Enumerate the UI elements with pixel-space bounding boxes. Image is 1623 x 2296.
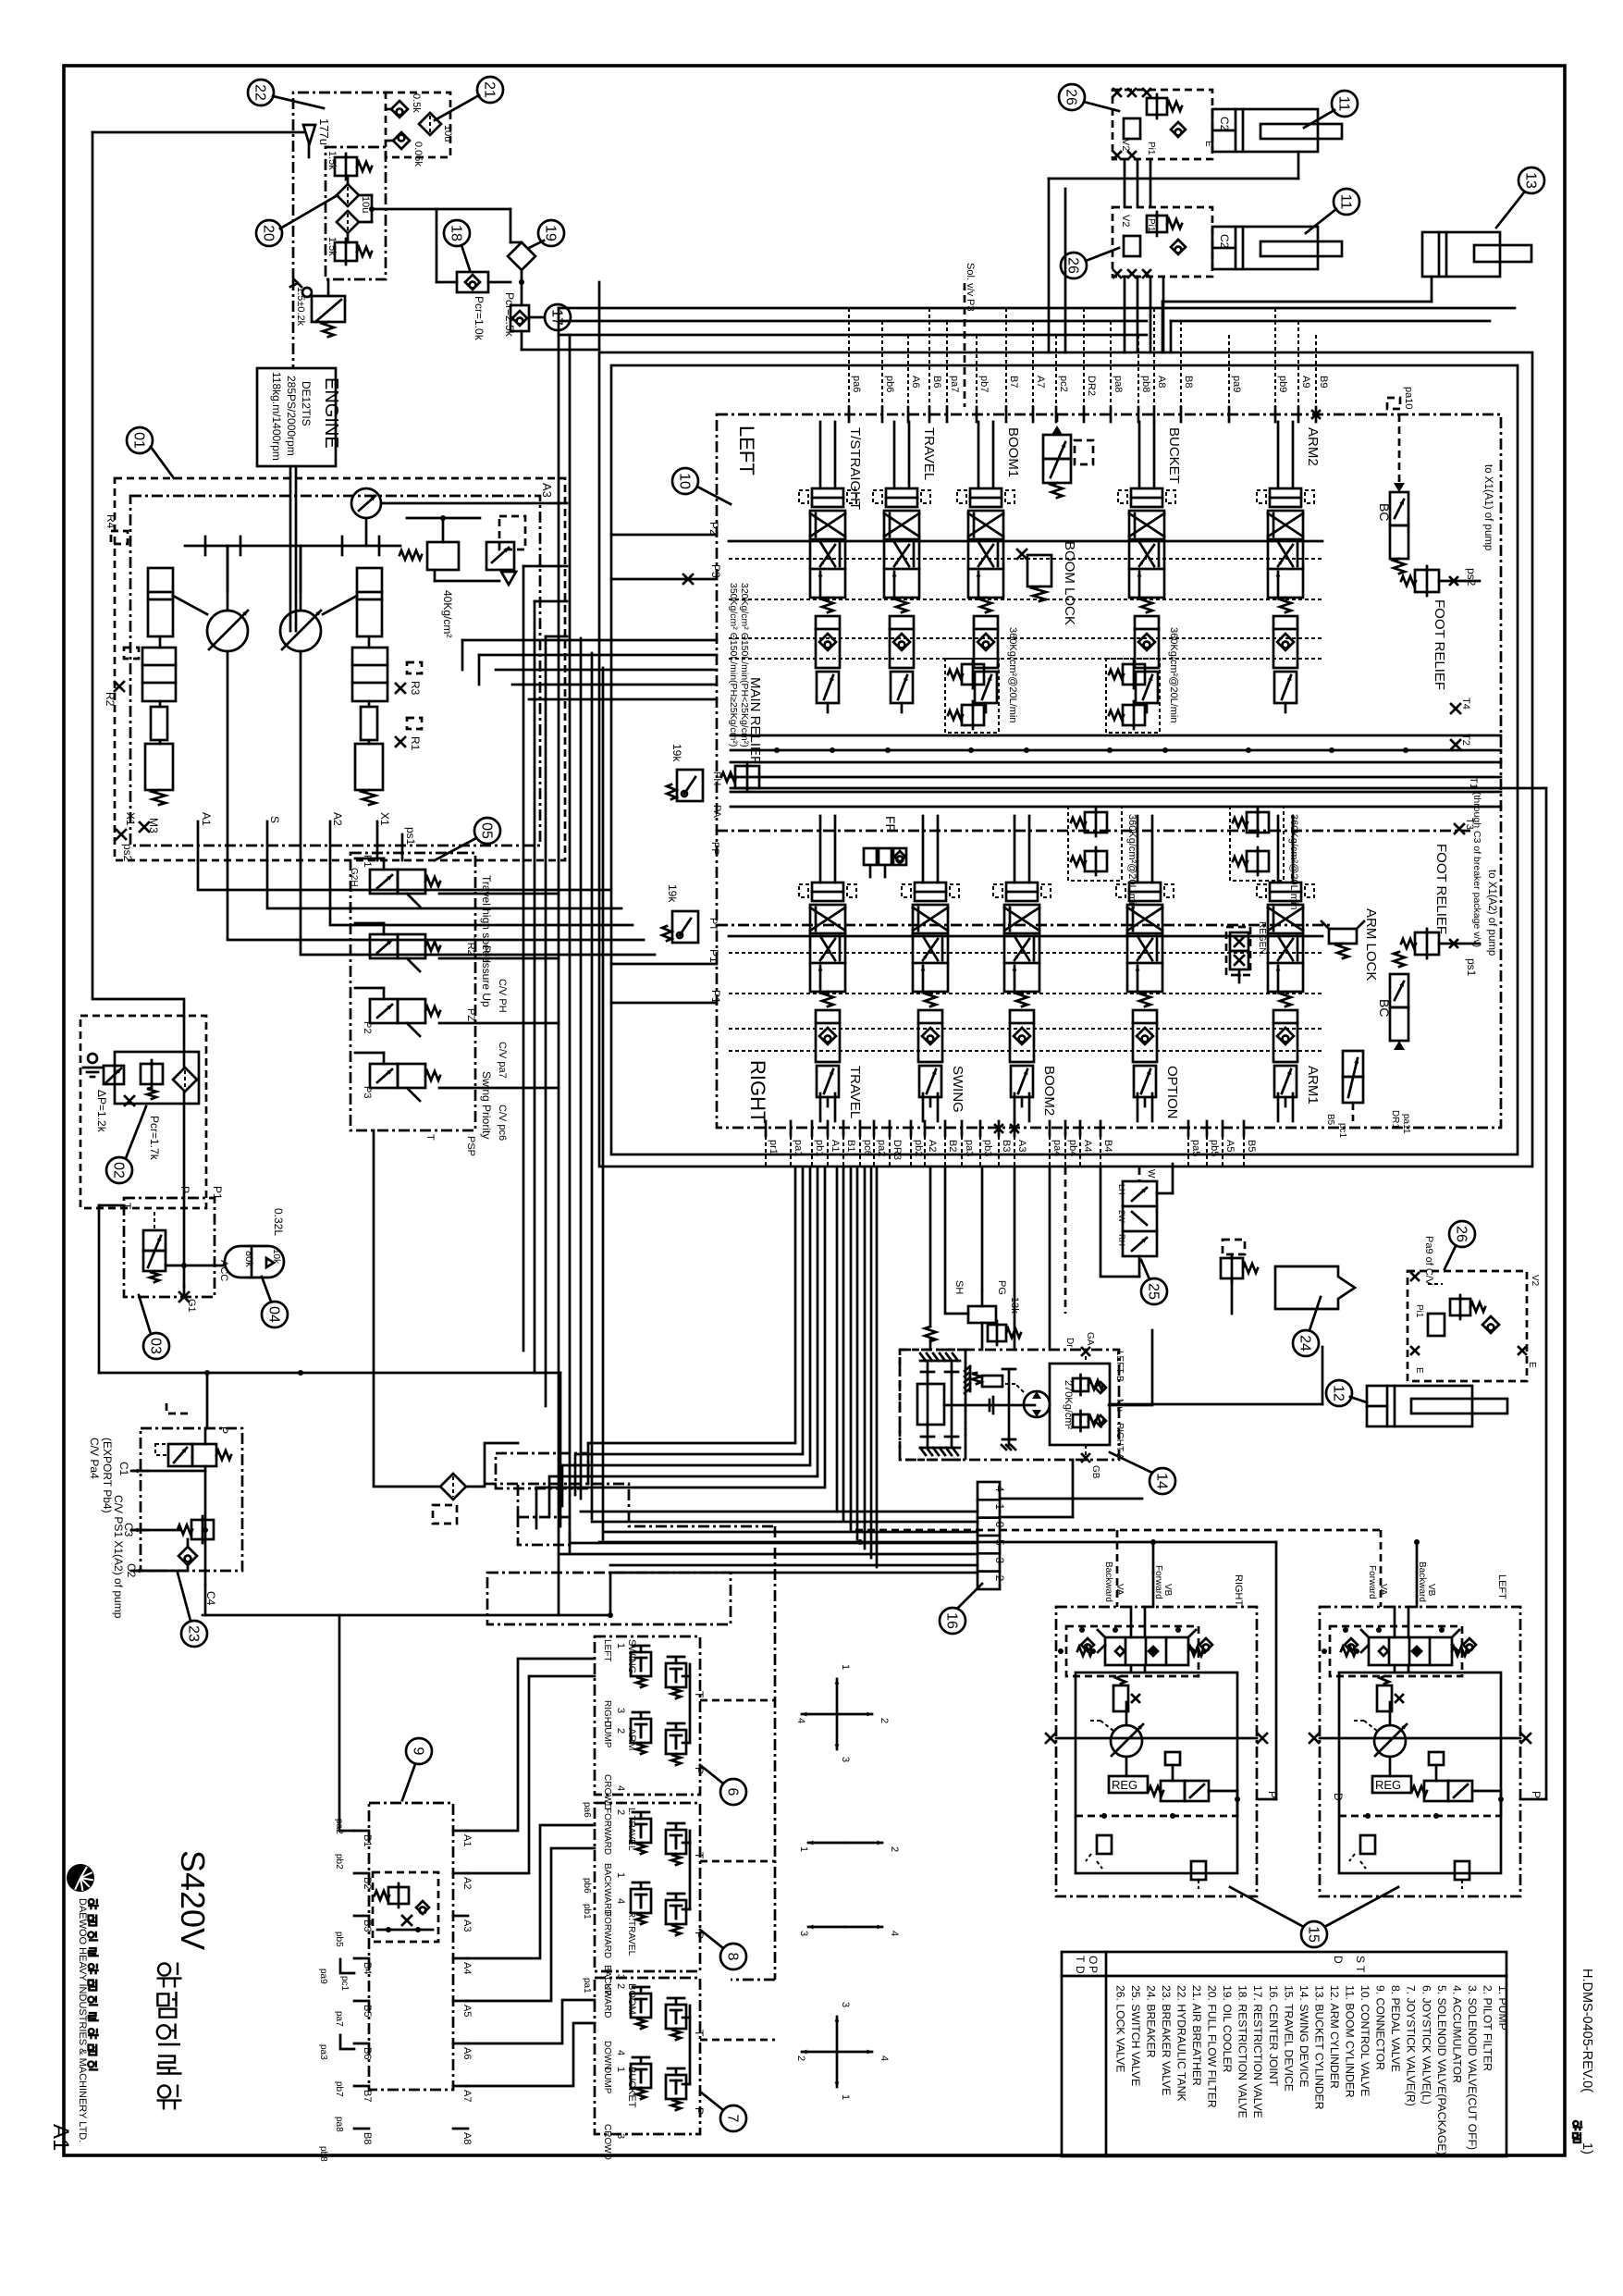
pilot routing dash-dot [433, 1453, 775, 2040]
svg-text:B1: B1 [362, 1834, 373, 1846]
foot relief upper [1401, 464, 1494, 690]
svg-text:D: D [1332, 1793, 1345, 1801]
svg-text:FORWARD: FORWARD [602, 1911, 612, 1958]
label 05 [435, 818, 500, 860]
label 7 [700, 2092, 746, 2131]
svg-text:pa8: pa8 [334, 2117, 344, 2132]
svg-text:1: 1 [840, 2094, 851, 2100]
svg-text:DUMP: DUMP [602, 2067, 612, 2094]
svg-text:D: D [1074, 1966, 1087, 1974]
svg-text:T: T [693, 1691, 706, 1698]
right bank spools [729, 816, 1322, 1121]
svg-text:pb7: pb7 [334, 2081, 344, 2097]
svg-text:T: T [693, 1852, 706, 1859]
svg-text:REGEN.: REGEN. [1257, 921, 1267, 957]
svg-text:SWING: SWING [626, 1639, 637, 1673]
svg-text:24. BREAKER: 24. BREAKER [1144, 1985, 1157, 2058]
svg-text:9: 9 [411, 1747, 426, 1756]
svg-text:0.32L: 0.32L [272, 1208, 285, 1236]
horizontal bundle pump to CV [462, 640, 717, 699]
svg-text:pb2: pb2 [913, 1140, 924, 1156]
svg-text:H.DMS-0405-REV.0(: H.DMS-0405-REV.0( [1580, 1969, 1594, 2092]
connector port labels [318, 1819, 354, 2162]
svg-text:BOOM LOCK: BOOM LOCK [1062, 541, 1077, 625]
label 03 [139, 1295, 169, 1359]
svg-text:BC: BC [1377, 503, 1392, 521]
svg-text:R4: R4 [105, 514, 117, 529]
main relief [707, 583, 763, 931]
svg-text:E: E [1414, 1367, 1424, 1374]
wires center joint to swing [1000, 1460, 1142, 1517]
vertical bundle left of CV [523, 308, 603, 1615]
pilot filter 02 [80, 1016, 206, 1208]
svg-text:pb5: pb5 [334, 1932, 344, 1947]
svg-text:LEFT B: LEFT B [1114, 1351, 1125, 1382]
svg-text:S420V: S420V [174, 1850, 212, 1950]
svg-text:ENGINE: ENGINE [321, 377, 341, 449]
svg-text:1.5k: 1.5k [326, 151, 338, 170]
svg-text:8. PEDAL VALVE: 8. PEDAL VALVE [1389, 1985, 1402, 2072]
bucket cylinder 13 [1422, 232, 1531, 277]
label 13 [1496, 167, 1544, 228]
svg-text:A4: A4 [1082, 1140, 1093, 1152]
svg-text:Backward: Backward [1417, 1562, 1427, 1602]
pilot drop lines [559, 308, 1316, 1167]
svg-text:20. FULL FLOW FILTER: 20. FULL FLOW FILTER [1206, 1985, 1219, 2108]
svg-text:pb8: pb8 [318, 2146, 328, 2162]
svg-text:T4: T4 [1460, 697, 1471, 710]
svg-text:X1: X1 [124, 812, 137, 826]
pc2 solenoid [1043, 414, 1093, 498]
svg-text:to X1(A1) of pump: to X1(A1) of pump [1482, 464, 1494, 550]
svg-text:pa1: pa1 [793, 1140, 804, 1156]
wires to center joint [559, 1512, 977, 1573]
pump relief 40Kg [400, 515, 525, 637]
engine box [257, 368, 341, 466]
svg-text:ARM: ARM [626, 1728, 637, 1750]
lock valve 26 bottom [1408, 1236, 1540, 1381]
svg-text:T: T [424, 1134, 436, 1141]
svg-text:ARM1: ARM1 [1305, 1066, 1321, 1105]
svg-text:P2: P2 [707, 522, 720, 536]
svg-text:A1: A1 [48, 2124, 73, 2151]
svg-text:05: 05 [479, 822, 495, 839]
svg-text:P1: P1 [211, 1186, 224, 1200]
svg-text:DR3: DR3 [891, 1140, 903, 1160]
svg-text:1: 1 [615, 1643, 626, 1648]
svg-text:40Kg/cm²: 40Kg/cm² [441, 590, 454, 637]
svg-text:pa6: pa6 [851, 376, 862, 392]
pilot partition lines [717, 831, 1470, 925]
svg-text:pa2: pa2 [876, 1140, 887, 1156]
svg-text:26: 26 [1064, 89, 1079, 105]
svg-text:UP: UP [602, 1983, 612, 1996]
svg-text:285PS/2000rpm: 285PS/2000rpm [285, 376, 298, 456]
svg-text:320Kg/cm² Θ150L/min(PH<25Kg/cm: 320Kg/cm² Θ150L/min(PH<25Kg/cm²) [739, 583, 750, 747]
BC valve upper [1377, 387, 1414, 574]
cylinder wires [559, 152, 1515, 407]
svg-text:1.5k: 1.5k [326, 237, 338, 256]
doc number [1573, 1969, 1594, 2154]
svg-text:14: 14 [1154, 1473, 1170, 1489]
label 12 [1326, 1380, 1367, 1406]
wires top-left [92, 132, 599, 1018]
right bank work port line [729, 935, 1322, 938]
CV bottom to swing verticals [945, 1167, 1139, 1350]
switch valve 25 [1117, 1167, 1173, 1277]
svg-text:B8: B8 [1183, 376, 1194, 388]
svg-text:0.05k: 0.05k [412, 142, 424, 167]
pump check R labels [104, 514, 422, 751]
svg-text:SH: SH [953, 1280, 965, 1294]
pressure switch 19k lower [662, 884, 698, 943]
svg-text:04: 04 [266, 1306, 282, 1323]
svg-text:BOOM2: BOOM2 [1041, 1066, 1057, 1116]
svg-text:RIGHT: RIGHT [1233, 1574, 1244, 1607]
svg-text:BOOM1: BOOM1 [1005, 427, 1021, 477]
breaker valve 23 [88, 1403, 242, 1619]
accumulator 04 [225, 1208, 285, 1278]
svg-text:pb1: pb1 [814, 1140, 825, 1156]
svg-text:350Kg/cm² Θ150L/min(PH≥25Kg/cm: 350Kg/cm² Θ150L/min(PH≥25Kg/cm²) [728, 583, 739, 747]
svg-text:0: 0 [993, 1522, 1006, 1528]
label 9 [402, 1738, 432, 1800]
svg-text:pr1: pr1 [768, 1140, 779, 1154]
svg-text:PSP: PSP [465, 1136, 476, 1156]
svg-text:B1: B1 [845, 1140, 856, 1152]
svg-text:pc6: pc6 [862, 1140, 873, 1156]
svg-text:2: 2 [993, 1575, 1006, 1582]
label 25 [1141, 1260, 1167, 1304]
lock small valve [1325, 1051, 1411, 1139]
svg-text:ps1: ps1 [1465, 958, 1478, 977]
svg-text:pb8: pb8 [1140, 376, 1151, 392]
svg-text:26: 26 [1454, 1226, 1469, 1242]
svg-text:3: 3 [615, 1708, 626, 1713]
svg-text:R1: R1 [409, 736, 422, 751]
svg-text:1. PUMP: 1. PUMP [1496, 1985, 1509, 2031]
label 23 [178, 1573, 207, 1647]
svg-text:23: 23 [186, 1625, 202, 1642]
svg-text:ARM LOCK: ARM LOCK [1363, 908, 1379, 981]
svg-text:1.5±0.2k: 1.5±0.2k [295, 287, 306, 327]
svg-text:S: S [1354, 1956, 1367, 1963]
svg-text:Dr: Dr [1064, 1338, 1075, 1348]
svg-text:B5: B5 [362, 2005, 373, 2017]
svg-text:PZ: PZ [465, 1008, 476, 1021]
svg-text:pa5: pa5 [1190, 1140, 1201, 1156]
svg-text:C1: C1 [117, 1462, 130, 1476]
svg-text:A8: A8 [1156, 376, 1167, 388]
solenoid valve cut-off 03 [120, 1186, 229, 1313]
svg-text:17. RESTRICTION VALVE: 17. RESTRICTION VALVE [1251, 1985, 1264, 2118]
pump port labels [117, 812, 417, 862]
svg-text:pc1: pc1 [339, 1976, 350, 1992]
svg-text:PA: PA [711, 805, 722, 819]
svg-text:C/V pa7: C/V pa7 [497, 1042, 508, 1079]
svg-text:A2: A2 [331, 812, 344, 826]
svg-text:22: 22 [252, 84, 268, 101]
label 01 [127, 427, 174, 478]
center joint 16 [977, 1482, 1006, 1589]
pilot line filter [440, 1474, 466, 1500]
svg-text:1): 1) [1580, 2142, 1594, 2154]
main pump right [280, 546, 321, 860]
label 10 [672, 468, 731, 504]
svg-text:LH: LH [1117, 1184, 1126, 1195]
svg-text:15: 15 [1306, 1926, 1322, 1943]
svg-text:CROWD: CROWD [602, 2124, 612, 2160]
joystick valve 6 [595, 1636, 706, 1810]
svg-text:P1: P1 [709, 990, 722, 1004]
svg-text:Pi1: Pi1 [1414, 1304, 1424, 1318]
svg-text:0.5k: 0.5k [411, 93, 422, 113]
label 11 lower [1306, 189, 1359, 233]
svg-text:A2: A2 [461, 1877, 473, 1889]
svg-text:4: 4 [879, 2055, 890, 2061]
svg-text:pa11: pa11 [1401, 1114, 1411, 1134]
svg-text:Sol. v/v P3: Sol. v/v P3 [965, 263, 976, 312]
svg-text:B2: B2 [362, 1877, 373, 1889]
svg-text:ps2: ps2 [121, 844, 134, 862]
svg-text:pa7: pa7 [334, 2011, 344, 2027]
svg-text:pa9: pa9 [1231, 376, 1242, 392]
svg-text:V2: V2 [1120, 215, 1131, 227]
routing solid wires left [203, 1130, 613, 1618]
svg-text:177u: 177u [317, 118, 331, 145]
T ports [1451, 697, 1479, 833]
svg-text:P: P [1087, 1966, 1100, 1973]
svg-text:23. BREAKER VALVE: 23. BREAKER VALVE [1160, 1985, 1173, 2095]
svg-text:A1: A1 [830, 1140, 841, 1152]
svg-text:V2: V2 [1120, 139, 1131, 151]
svg-text:P2: P2 [362, 1021, 373, 1033]
svg-text:16: 16 [944, 1612, 960, 1629]
svg-text:A3: A3 [1016, 1140, 1027, 1152]
svg-text:01: 01 [131, 432, 147, 449]
connector 9 [354, 1803, 473, 2144]
svg-text:BC: BC [1377, 999, 1392, 1017]
pump assembly 01 outer [115, 478, 565, 860]
svg-text:360Kg/cm²@20L/min: 360Kg/cm²@20L/min [1168, 627, 1179, 723]
svg-text:4: 4 [615, 2050, 626, 2055]
full flow filter 20 [326, 147, 386, 279]
svg-text:DOWN: DOWN [602, 2041, 612, 2070]
label 04 [262, 1277, 288, 1327]
svg-text:pb1: pb1 [582, 1904, 592, 1920]
control valve outer [599, 352, 1532, 1167]
sheet size A1 [48, 2124, 73, 2151]
svg-text:360Kg/cm²@20L/min: 360Kg/cm²@20L/min [1126, 814, 1137, 910]
label 11 upper [1304, 91, 1358, 128]
svg-text:18: 18 [449, 225, 464, 241]
svg-text:Pi1: Pi1 [1146, 142, 1156, 155]
svg-text:1: 1 [993, 1503, 1006, 1510]
servo piston left [142, 568, 207, 805]
pump unit inner [130, 496, 540, 846]
svg-text:pb7: pb7 [978, 376, 990, 392]
svg-text:1: 1 [798, 1846, 809, 1852]
svg-text:T: T [1074, 1956, 1087, 1963]
svg-text:2. PILOT FILTER: 2. PILOT FILTER [1481, 1985, 1494, 2071]
svg-text:pa7: pa7 [949, 376, 960, 392]
label 16 [940, 1584, 982, 1634]
svg-text:FP: FP [883, 816, 898, 833]
drive shaft [185, 466, 400, 631]
svg-text:6: 6 [725, 1788, 741, 1796]
solenoid package 05 [349, 853, 559, 1156]
bottom bundle verticals [837, 1167, 877, 1567]
restriction valve 17 [510, 304, 571, 331]
svg-text:A2: A2 [927, 1140, 938, 1152]
svg-text:DAEWOO HEAVY INDUSTRIES & MACH: DAEWOO HEAVY INDUSTRIES & MACHINERY LTD. [77, 1898, 88, 2142]
svg-text:2: 2 [615, 1809, 626, 1815]
boom cylinder upper 11 [1212, 109, 1342, 152]
svg-text:C2: C2 [1218, 234, 1231, 249]
servo piston right [323, 568, 387, 805]
label 21 [435, 77, 503, 120]
svg-text:TR2: TR2 [465, 936, 476, 956]
svg-text:REG: REG [1112, 1778, 1137, 1792]
svg-text:2: 2 [795, 2055, 806, 2061]
svg-text:A6: A6 [461, 2047, 473, 2059]
svg-text:LEFT: LEFT [1496, 1574, 1507, 1599]
svg-text:B5: B5 [1246, 1140, 1257, 1152]
svg-text:21. AIR BREATHER: 21. AIR BREATHER [1190, 1985, 1203, 2086]
svg-text:C/V pc6: C/V pc6 [497, 1105, 508, 1141]
air breather 21 [386, 93, 453, 167]
label 19 [529, 220, 564, 248]
travel device right [1046, 1562, 1279, 1896]
svg-text:FOOT RELIEF: FOOT RELIEF [1432, 599, 1447, 690]
svg-text:25. SWITCH VALVE: 25. SWITCH VALVE [1129, 1985, 1142, 2086]
svg-text:A8: A8 [461, 2132, 473, 2144]
svg-text:12: 12 [1331, 1385, 1346, 1401]
label 6 [700, 1765, 746, 1805]
svg-text:12. ARM CYLINDER: 12. ARM CYLINDER [1328, 1985, 1341, 2089]
svg-text:P1: P1 [362, 855, 373, 867]
svg-text:R3: R3 [409, 681, 422, 696]
svg-text:A4: A4 [461, 1962, 473, 1974]
staircase wires to joysticks [339, 1615, 595, 2086]
svg-text:G2H: G2H [349, 868, 359, 887]
svg-text:P3: P3 [362, 1086, 373, 1098]
svg-text:Forward: Forward [1153, 1565, 1163, 1599]
svg-text:C/V PS1 X1(A2) of pump: C/V PS1 X1(A2) of pump [112, 1495, 125, 1619]
svg-text:DR2: DR2 [1086, 376, 1097, 396]
svg-text:S: S [268, 816, 281, 823]
pressure switch 19k upper [667, 744, 703, 801]
svg-text:C/V PH: C/V PH [497, 979, 508, 1013]
main pump left [207, 546, 248, 860]
svg-text:21: 21 [482, 81, 498, 98]
svg-text:GB: GB [1090, 1465, 1100, 1479]
svg-text:B7: B7 [362, 2090, 373, 2102]
pilot supply wire [205, 1614, 610, 1617]
svg-text:RH: RH [1117, 1234, 1126, 1246]
lock valve 26 lower [1113, 207, 1231, 278]
svg-text:3. SOLENOID VALVE(CUT OFF): 3. SOLENOID VALVE(CUT OFF) [1466, 1985, 1479, 2150]
svg-text:pb3: pb3 [982, 1140, 993, 1156]
svg-text:3: 3 [615, 2133, 626, 2139]
svg-text:11: 11 [1336, 96, 1352, 112]
svg-text:B6: B6 [931, 376, 942, 388]
legend table [1062, 1952, 1509, 2156]
inlet ports [611, 522, 722, 1004]
svg-text:ΔP=1.2k: ΔP=1.2k [95, 1090, 108, 1133]
svg-text:A6: A6 [910, 376, 921, 388]
Daewoo logo [67, 1864, 94, 1892]
pedal valve 8 [582, 1802, 706, 2018]
svg-text:X1: X1 [378, 812, 391, 826]
BC valve lower [1377, 952, 1408, 1050]
arm lock [1322, 908, 1379, 981]
svg-text:pb6: pb6 [884, 376, 895, 392]
svg-text:18. RESTRICTION VALVE: 18. RESTRICTION VALVE [1236, 1985, 1249, 2118]
svg-text:8: 8 [725, 1953, 741, 1961]
svg-text:DR1: DR1 [1390, 1110, 1400, 1129]
svg-text:BACKWARD: BACKWARD [602, 1863, 612, 1916]
svg-text:B7: B7 [1008, 376, 1019, 388]
staircase to routing loop [536, 1167, 825, 1528]
svg-text:360Kg/cm²@20L/min: 360Kg/cm²@20L/min [1288, 814, 1299, 910]
svg-text:P: P [693, 2107, 706, 2115]
svg-text:4: 4 [795, 1718, 806, 1723]
svg-text:10. CONTROL VALVE: 10. CONTROL VALVE [1359, 1985, 1371, 2096]
svg-text:DE12TIS: DE12TIS [300, 381, 313, 426]
svg-text:TRAVEL: TRAVEL [847, 1066, 863, 1118]
travel feed wires [599, 788, 1546, 1799]
routing loop extra [487, 1484, 731, 1624]
svg-text:PP: PP [709, 842, 720, 856]
top port row [849, 376, 1329, 422]
svg-text:10u: 10u [360, 196, 371, 213]
svg-text:SWING: SWING [950, 1066, 965, 1113]
label 22 [248, 80, 324, 108]
svg-text:P: P [1530, 1791, 1543, 1798]
label 8 [700, 1930, 746, 1969]
svg-text:T: T [693, 2030, 706, 2037]
svg-text:26: 26 [1065, 257, 1081, 274]
svg-text:pa10: pa10 [1403, 387, 1414, 409]
svg-text:13. BUCKET CYLINDER: 13. BUCKET CYLINDER [1312, 1985, 1325, 2110]
svg-text:FORWARD: FORWARD [602, 1808, 612, 1855]
svg-text:16. CENTER JOINT: 16. CENTER JOINT [1267, 1985, 1280, 2087]
svg-text:pb5: pb5 [1209, 1140, 1220, 1156]
svg-text:pc2: pc2 [1058, 376, 1069, 392]
left bank spools [729, 422, 1322, 712]
svg-text:2: 2 [889, 1846, 900, 1852]
svg-text:C2: C2 [1218, 117, 1231, 131]
pump outlet wires [198, 860, 655, 955]
label 24 [1293, 1297, 1321, 1356]
hydraulic tank 22 boundary [293, 93, 387, 368]
svg-text:20: 20 [261, 225, 277, 241]
svg-text:pa6: pa6 [582, 1802, 592, 1818]
svg-text:T2: T2 [1460, 734, 1471, 746]
svg-text:to X1(A2) of pump: to X1(A2) of pump [1486, 870, 1497, 956]
svg-text:LEFT: LEFT [735, 426, 758, 475]
FP valves [864, 816, 906, 877]
company name korean [88, 1899, 99, 2070]
svg-text:V2: V2 [1530, 1275, 1540, 1287]
svg-text:Pi1: Pi1 [1146, 218, 1156, 232]
svg-text:4: 4 [993, 1486, 1006, 1492]
svg-text:ARM2: ARM2 [1305, 427, 1321, 466]
svg-text:17: 17 [549, 309, 565, 326]
label 26 upper [1059, 84, 1119, 111]
svg-text:REG: REG [1375, 1778, 1401, 1792]
